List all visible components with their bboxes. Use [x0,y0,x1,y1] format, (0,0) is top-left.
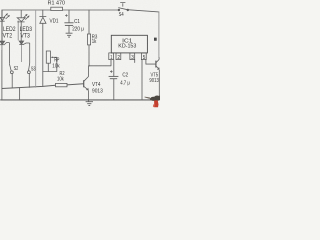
scan grain overlay [0,0,1,1]
pin 2 [116,53,121,60]
wire C1 top [68,10,70,23]
wire R3 top [88,10,90,34]
pin 3 [130,53,135,60]
watermark logo red dot [153,104,154,107]
wire VD1 top [42,10,44,16]
switch S2 [9,64,13,88]
wire right edge (S4 to VT5 collector) [158,12,160,58]
resistor R1 [51,7,63,10]
transistor Q2 VT5 [156,57,159,97]
wire top rail [2,9,118,11]
zener diode VD1 [39,16,46,23]
wire VD1 bottom down to RP area [42,23,44,86]
IC U1 KD-153 [111,35,147,53]
pin 1 [109,53,114,60]
ground (main) [86,100,93,106]
wire pin3 stub [134,60,136,63]
watermark logo dark tail [145,97,151,99]
switch S3 [28,63,31,88]
potentiometer RP [46,51,57,63]
capacitor C2 [109,70,119,78]
wire C1 to ground [68,26,70,33]
wire RP wiper tail [43,57,57,71]
resistor R2 [56,83,68,86]
wire RP bottom stub [47,63,49,71]
switch S4 [118,2,129,10]
wire label-band divider x18.2 [17,21,19,40]
watermark logo red [154,100,158,107]
thyristor VT3 [19,41,30,63]
wire C2 top to pin1 cell edge [113,60,115,76]
resistor R3 [88,34,91,45]
node collector VT4 [88,65,89,66]
wire bottom rail 2 (ground rail) [1,99,152,101]
transistor Q1 VT4 [84,66,89,100]
wire pin5 to VT5 base [146,60,156,64]
wire connector x19.6 between rails [19,88,21,100]
wire pin5 long to ground rail [141,60,143,100]
capacitor C1 [64,14,73,25]
LED LED2 [0,10,10,41]
wire collector node to pin1 [89,60,111,66]
thyristor VT2 [0,41,9,64]
LED LED3 [17,10,29,41]
ground (C1) [66,33,73,37]
wire top rail right of S4 [127,10,159,12]
watermark logo dark [150,96,161,101]
node mark right edge [154,38,156,40]
pin 5 [141,53,146,60]
wire bottom rail 1 (left, sloped, into R2 line to VT4 base) [2,84,84,89]
wire C2 bottom to ground rail [113,79,115,100]
wire vertical x35.7 [35,10,37,87]
wire left border [1,10,3,100]
wire R3 bottom to collector node [88,45,90,66]
